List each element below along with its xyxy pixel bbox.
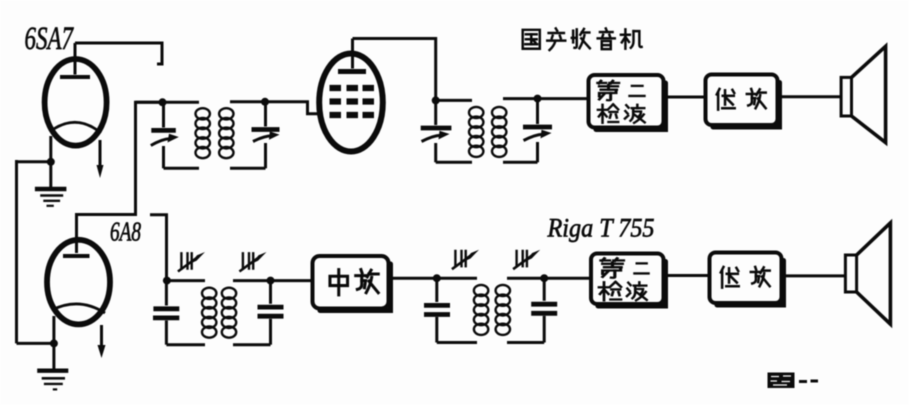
node D : T2 secondary top — [534, 95, 542, 103]
capacitor C2 lead bottom — [264, 143, 267, 168]
node F : T3 secondary top — [267, 277, 275, 285]
wire: detector to AF box (bottom) — [664, 274, 710, 277]
capacitor C5 plate 1 — [153, 306, 179, 311]
T2 secondary bottom wire — [503, 161, 538, 164]
V2 grid dashes row 3 — [330, 112, 375, 118]
capacitor C4 moving plate with arrow — [524, 134, 544, 140]
V2 plate lead — [351, 39, 354, 69]
svg-text:6A8: 6A8 — [110, 217, 141, 247]
T4 primary bottom wire — [437, 341, 477, 344]
V1 cathode arrow — [99, 140, 102, 167]
wire: left vertical rail — [15, 160, 18, 343]
capacitor C7 lead bottom — [435, 317, 438, 343]
capacitor C5 lead bottom — [165, 321, 168, 345]
capacitor C1 moving plate with arrow — [151, 139, 170, 146]
T3 secondary top wire — [233, 279, 271, 282]
T1 secondary bottom wire — [230, 167, 266, 170]
capacitor C2 moving plate with arrow — [253, 136, 272, 142]
coil L3 (T2 primary) — [469, 107, 483, 118]
T1 primary bottom wire — [164, 167, 200, 170]
box U3 IF amp 中放 — [313, 256, 389, 309]
capacitor C2 (trimmer) top plate — [252, 127, 280, 132]
wire: T1 node A down to V3 plate — [77, 102, 163, 253]
capacitor C3 moving plate with arrow — [422, 135, 442, 141]
V3 plate bar — [63, 254, 90, 258]
node H : T4 secondary top — [540, 274, 548, 282]
wire: IF amp box to T4 — [389, 277, 437, 280]
box U4 text 检波 — [599, 282, 621, 300]
V3 cathode arrow — [100, 325, 103, 347]
wire: T2 to detector box — [538, 97, 589, 100]
wire: detector to AF box (top) — [664, 96, 706, 99]
capacitor C4 lead top — [536, 99, 539, 124]
coil L7 (T4 primary) — [474, 285, 488, 296]
trimmer core arrow (T4 primary) — [455, 250, 465, 268]
svg-text:Riga T 755: Riga T 755 — [547, 213, 655, 243]
wire: V2 plate to T2 — [353, 39, 436, 99]
trimmer core arrow (T3 secondary) — [243, 252, 253, 270]
capacitor C6 lead bottom — [269, 319, 272, 345]
node A : T1 primary top — [159, 98, 167, 106]
box U2 audio amp (top) — [706, 75, 778, 126]
speaker LS2 driver — [845, 255, 856, 292]
V3 cathode arc — [52, 304, 105, 313]
capacitor C6 plate 1 — [258, 305, 284, 310]
label 国产收音机 — [523, 30, 540, 49]
trimmer core arrow (T3 primary) — [181, 252, 191, 270]
V1 cathode arc — [50, 122, 101, 133]
V1 plate bar — [60, 75, 90, 79]
speaker LS1 horn — [852, 46, 886, 142]
figure label 图一 — [768, 373, 795, 389]
capacitor C5 plate 2 — [153, 315, 179, 320]
box U5 text 低放 — [721, 267, 739, 288]
IF transformer T4 primary top wire — [437, 277, 477, 280]
node: V1 cathode junction — [47, 158, 55, 166]
box U1 text 检波 — [598, 104, 618, 122]
node G : T4 primary top — [433, 274, 441, 282]
wire: V1 plate to top rail stub — [75, 43, 162, 64]
coil L2 (T1 secondary winding) — [219, 108, 233, 119]
ground GND1 — [35, 187, 67, 191]
box U1 text 第二 — [598, 81, 619, 100]
capacitor C6 plate 2 — [258, 314, 284, 319]
IF transformer T3 primary top wire — [167, 279, 205, 282]
capacitor C7 lead top — [435, 278, 438, 302]
T4 secondary bottom wire — [507, 341, 544, 344]
node C : T2 primary top — [432, 96, 440, 104]
capacitor C6 lead top — [269, 281, 272, 304]
V2 plate bar — [338, 69, 366, 74]
tube V3 6A8 envelope — [47, 240, 110, 325]
IF transformer T1 left tank top wire — [136, 101, 200, 104]
tube V1 6SA7 envelope — [45, 59, 107, 146]
V2 grid dashes row 1 — [330, 85, 375, 91]
node: V3 cathode junction — [50, 339, 58, 347]
wire: left rail top segment — [17, 160, 52, 163]
T2 primary bottom wire — [436, 161, 472, 164]
ground GND2 — [37, 369, 68, 373]
capacitor C7 plate 1 — [424, 303, 450, 308]
node B : T1 secondary top — [261, 98, 269, 106]
wire: left rail bottom segment — [17, 342, 54, 345]
wire: AF box to speaker (top) — [778, 95, 842, 98]
wire: T1 to V2 grid with jog — [265, 102, 320, 114]
T2 secondary top wire — [503, 97, 538, 100]
coil L4 (T2 secondary) — [492, 107, 506, 118]
svg-text:6SA7: 6SA7 — [25, 21, 75, 57]
capacitor C8 lead bottom — [543, 316, 546, 343]
T3 primary bottom wire — [166, 343, 205, 346]
T1 secondary top wire — [230, 100, 265, 103]
box U1 second detector (top) — [589, 75, 664, 128]
box U2 text 低放 — [717, 89, 735, 110]
node E : T3 primary top — [163, 277, 171, 285]
capacitor C4 lead bottom — [536, 142, 539, 162]
capacitor C4 (trimmer) top plate — [523, 125, 552, 130]
capacitor C8 plate 1 — [531, 302, 557, 307]
box U4 second detector (bottom) — [591, 254, 664, 305]
box U5 audio amp (bottom) — [710, 253, 782, 304]
box U3 text 中放 — [330, 270, 348, 295]
coil L1 (T1 primary winding) — [196, 108, 210, 119]
wire: V3 cathode lead — [52, 316, 55, 369]
IF transformer T2 primary top wire — [436, 99, 472, 102]
capacitor C1 lead bottom — [162, 146, 165, 168]
coil L8 (T4 secondary) — [496, 285, 510, 296]
capacitor C8 plate 2 — [531, 311, 557, 316]
box U4 text 第二 — [601, 258, 624, 277]
speaker LS1 driver — [841, 77, 851, 116]
capacitor C3 lead top — [434, 100, 437, 125]
capacitor C1 lead top — [162, 102, 165, 127]
capacitor C7 plate 2 — [424, 312, 450, 317]
wire: T3 node up stub — [150, 215, 167, 281]
capacitor C1 (trimmer) top plate — [151, 128, 176, 133]
capacitor C3 lead bottom — [434, 143, 437, 162]
T3 secondary bottom wire — [233, 343, 271, 346]
coil L5 (T3 primary) — [202, 288, 216, 299]
trimmer core arrow (T4 secondary) — [517, 250, 527, 268]
tube V2 (IF amplifier) envelope — [319, 54, 383, 152]
T4 secondary top wire — [507, 277, 544, 280]
wire: AF box to speaker (bottom) — [782, 274, 846, 277]
coil L6 (T3 secondary) — [222, 288, 236, 299]
speaker LS2 horn — [857, 223, 891, 324]
capacitor C3 (trimmer) top plate — [421, 126, 452, 131]
V2 grid dashes row 2 — [330, 98, 375, 104]
V1 plate lead — [74, 43, 77, 75]
capacitor C2 lead top — [264, 102, 267, 127]
wire: T4 to detector box (bottom) — [544, 277, 591, 280]
capacitor C5 lead top — [165, 281, 168, 306]
wire: T3 to IF amp box — [271, 279, 313, 282]
wire: V1 cathode lead — [49, 136, 52, 187]
capacitor C8 lead top — [543, 278, 546, 301]
